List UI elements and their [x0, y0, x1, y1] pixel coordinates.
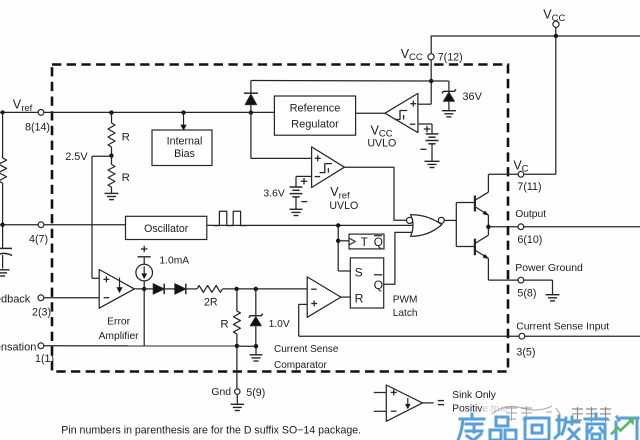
wire 2.5V to divider	[92, 155, 112, 157]
label Current Sense Input	[516, 322, 609, 359]
ground (1.0V zener)	[250, 355, 263, 361]
label S input	[355, 265, 363, 279]
transistor Q1 (upper NPN)	[475, 174, 489, 227]
clock waveform glyph	[214, 211, 247, 225]
watermark green arrow	[611, 421, 631, 435]
label Vref UVLO	[329, 185, 358, 212]
watermark char 6	[616, 417, 638, 440]
svg-text:R: R	[220, 318, 228, 330]
wire Vref UVLO minus input	[296, 176, 312, 187]
label R input	[355, 291, 364, 305]
wire UVLO plus input	[418, 103, 431, 105]
battery VCC UVLO threshold	[420, 126, 438, 150]
wire comp to zener ground	[237, 345, 256, 347]
pin Vref 8(14) label	[13, 98, 50, 134]
svg-text:Feedback: Feedback	[0, 293, 31, 305]
label 1.0mA	[159, 255, 189, 266]
ground (36V zener)	[442, 111, 456, 117]
pin Output 6(10)	[518, 224, 524, 230]
svg-text:Current Sense Input: Current Sense Input	[516, 322, 609, 333]
pin Power Ground 5(8)	[518, 277, 524, 283]
op-amp VCC UVLO	[385, 93, 418, 132]
wire latch output to gate	[384, 232, 412, 284]
wire comparator to R latch	[341, 296, 350, 298]
wire VCC internal rail	[251, 80, 431, 83]
op-amp Error Amplifier	[99, 270, 134, 309]
svg-text:3.6V: 3.6V	[263, 188, 284, 199]
wire to 36V zener	[431, 81, 449, 91]
label Internal Bias	[167, 136, 203, 160]
svg-text:4(7): 4(7)	[29, 234, 48, 246]
wire VCC top rail	[431, 36, 640, 57]
svg-text:Amplifier: Amplifier	[99, 331, 140, 342]
svg-text:5(8): 5(8)	[517, 288, 536, 300]
op-amp Current Sense Comparator	[307, 277, 341, 317]
wire oscillator output	[207, 224, 414, 226]
diode D2	[153, 284, 164, 295]
zener diode 36V	[442, 89, 456, 110]
label R lower	[122, 172, 130, 184]
wire comp node to Gnd pin	[236, 346, 238, 389]
node comp junction	[235, 344, 239, 348]
label VCC UVLO	[367, 123, 396, 149]
op-amp Vref UVLO	[312, 147, 345, 188]
wire diodes to 2R	[186, 288, 197, 290]
svg-text:6(10): 6(10)	[517, 234, 542, 246]
resistor R lower	[108, 156, 115, 193]
wire Current Sense Input	[299, 335, 640, 337]
wire diode to VCC rail	[250, 81, 252, 93]
node RT CT junction	[0, 223, 4, 227]
label 36V	[463, 91, 483, 103]
label 2R	[204, 296, 218, 308]
wire top VCC vertical	[555, 27, 557, 36]
transistor Q2 (lower NPN)	[475, 227, 489, 280]
svg-text:Error: Error	[107, 317, 130, 328]
watermark char 5	[585, 414, 607, 440]
svg-text:Q: Q	[374, 278, 383, 292]
label 1.0V	[269, 319, 290, 330]
label Current Sense Comparator	[274, 344, 339, 371]
wire VCC to VC drop	[555, 36, 557, 174]
bubble NOR output	[438, 217, 444, 223]
diode D1 (Vref-VCC)	[244, 93, 258, 112]
svg-text:2(3): 2(3)	[32, 307, 51, 319]
wire Vref rail	[0, 111, 274, 113]
ground (divider)	[105, 193, 119, 199]
node internal bias branch	[181, 110, 185, 114]
svg-text:7(11): 7(11)	[517, 181, 541, 193]
watermark char 4	[555, 416, 579, 440]
watermark char 2	[490, 417, 516, 440]
svg-text:Compensation: Compensation	[0, 341, 36, 353]
wire VC	[488, 173, 555, 175]
svg-text:R: R	[355, 291, 364, 305]
ground (VCC UVLO battery)	[425, 161, 440, 167]
svg-text:R: R	[122, 132, 130, 144]
node diode junction	[249, 110, 253, 114]
svg-text:Sink Only: Sink Only	[452, 390, 497, 401]
node Vref divider tap	[109, 110, 113, 114]
wire Gnd pin to ground	[236, 395, 238, 405]
wire CT branch	[2, 225, 4, 248]
node Vref left edge	[1, 110, 5, 114]
ground (CT)	[0, 270, 10, 276]
svg-text:Latch: Latch	[393, 308, 418, 319]
wire NOR output	[444, 219, 456, 221]
svg-text:Current Sense: Current Sense	[274, 344, 339, 355]
pin Gnd 5(9)	[235, 389, 240, 394]
capacitor CT (left edge)	[0, 248, 12, 268]
svg-text:7(12): 7(12)	[438, 51, 463, 63]
wire driver split	[455, 203, 457, 247]
svg-text:UVLO: UVLO	[367, 138, 396, 150]
gate NOR (output logic)	[411, 215, 442, 236]
label R upper	[122, 132, 130, 144]
zener diode 1.0V	[249, 289, 263, 346]
label Output	[515, 209, 546, 246]
resistor RT (left edge)	[0, 158, 7, 183]
pin Feedback 2(3) label	[0, 293, 51, 318]
resistor R (ramp divider)	[233, 289, 240, 346]
pin VCC top	[553, 21, 559, 27]
wire EA output to comp	[143, 289, 145, 346]
pin Compensation 1(1) label	[0, 341, 54, 365]
power VCC (top) label	[543, 8, 565, 24]
label R (ramp divider)	[220, 318, 228, 330]
svg-text:Output: Output	[515, 209, 546, 220]
wire RT branch	[2, 112, 4, 158]
svg-text:Oscillator: Oscillator	[144, 223, 189, 235]
node VCC rail junction	[554, 34, 558, 38]
wire upper base	[456, 202, 475, 204]
wire 2.5V to error amp	[92, 156, 99, 278]
pin Compensation 1(1)	[38, 343, 44, 349]
label Reference Regulator	[290, 103, 341, 131]
svg-text:2R: 2R	[204, 296, 218, 308]
pin VCC 7(12)	[428, 54, 434, 60]
svg-text:1(1): 1(1)	[35, 353, 54, 365]
block Internal Bias	[152, 130, 212, 166]
block Oscillator	[126, 216, 207, 239]
pin VC 7(11)	[518, 171, 524, 177]
svg-text:CC: CC	[409, 52, 423, 63]
svg-text:Reference: Reference	[290, 103, 341, 115]
wire Output	[488, 226, 640, 228]
watermark char 3	[525, 418, 549, 440]
pin RT/CT 4(7)	[38, 222, 44, 228]
resistor 2R	[197, 286, 223, 293]
pin Gnd 5(9) label	[211, 387, 265, 399]
block Reference Regulator	[274, 96, 355, 135]
legend text	[452, 390, 508, 414]
svg-text:S: S	[355, 265, 363, 279]
pin VCC 7(12) label	[401, 47, 463, 64]
svg-text:PWM: PWM	[393, 294, 418, 305]
current source 1.0mA	[136, 246, 153, 289]
node 2.5V tap	[109, 154, 113, 158]
wire internal bias arrow	[181, 112, 186, 130]
node error amp output	[142, 287, 146, 291]
svg-text:Bias: Bias	[174, 148, 195, 160]
ground (power ground)	[546, 295, 560, 301]
dashed IC boundary box	[52, 65, 508, 372]
label Oscillator	[144, 223, 189, 235]
node T input branch	[336, 239, 340, 243]
wire regulator to UVLO comparator	[356, 112, 385, 114]
wire Vref UVLO output	[344, 167, 406, 220]
wire VCC pin down	[430, 57, 432, 104]
wire Power Ground	[488, 280, 552, 295]
svg-text:ref: ref	[21, 103, 32, 114]
label Q-bar output	[374, 275, 383, 292]
node zener branch	[254, 287, 258, 291]
label T and clock chevron	[349, 235, 383, 249]
svg-text:1.0V: 1.0V	[269, 319, 290, 330]
label VC	[513, 158, 541, 193]
ground (Gnd pin)	[231, 404, 245, 410]
label 2.5V	[65, 151, 88, 163]
wire zener node down	[255, 346, 257, 355]
wire pin4 to oscillator	[0, 224, 126, 226]
wire RT to pin4	[2, 183, 4, 225]
node totem pole output	[486, 225, 490, 229]
svg-text:Gnd: Gnd	[211, 387, 231, 398]
wire battery to ground	[431, 144, 433, 161]
wire UVLO minus input	[418, 124, 432, 134]
svg-text:Power Ground: Power Ground	[515, 262, 583, 274]
svg-text:3(5): 3(5)	[516, 347, 535, 359]
pin 4(7) label	[29, 234, 48, 246]
svg-text:5(9): 5(9)	[246, 387, 265, 399]
block toggle flip-flop	[349, 234, 384, 249]
svg-text:T: T	[361, 235, 368, 249]
pin Current Sense 3(5)	[519, 333, 525, 339]
wire branch to T and S	[338, 225, 350, 271]
svg-text:8(14): 8(14)	[25, 122, 50, 134]
node zener ground junction	[254, 344, 258, 348]
label 3.6V	[263, 188, 284, 199]
wire CS to comparator plus	[299, 304, 308, 336]
battery 3.6V threshold	[290, 178, 308, 202]
svg-text:Comparator: Comparator	[274, 360, 327, 371]
wire feedback input	[44, 297, 99, 299]
wire lower base	[456, 246, 475, 248]
wire Vref to UVLO comparator	[251, 112, 312, 158]
wire T input	[338, 240, 349, 242]
diode D3	[175, 284, 186, 295]
svg-text:1.0mA: 1.0mA	[159, 255, 189, 266]
bubble NOR input	[407, 217, 413, 223]
wire 3.6V battery to ground	[295, 197, 297, 209]
pin Vref 8(14)	[38, 110, 44, 116]
svg-text:Pin numbers in parenthesis are: Pin numbers in parenthesis are for the D…	[61, 425, 361, 437]
node R branch	[234, 287, 238, 291]
svg-text:R: R	[122, 172, 130, 184]
ground (3.6V battery)	[290, 209, 303, 215]
watermark char 1	[458, 414, 484, 440]
svg-text:Q: Q	[374, 235, 383, 249]
wire EA apex to node	[134, 288, 153, 290]
node VCC internal junction	[429, 79, 433, 83]
node oscillator branch	[336, 223, 340, 227]
svg-text:UVLO: UVLO	[329, 200, 358, 212]
wire compensation	[44, 345, 237, 347]
label Error Amplifier	[99, 317, 140, 343]
svg-text:2.5V: 2.5V	[65, 151, 88, 163]
block PWM latch	[350, 258, 383, 308]
watermark (blue recycled-goods logo)	[458, 399, 638, 440]
label PWM Latch	[393, 294, 418, 319]
legend op-amp symbol	[374, 385, 434, 421]
svg-text:Internal: Internal	[167, 136, 203, 148]
legend equals sign	[438, 401, 444, 405]
pin Feedback 2(3)	[38, 295, 44, 301]
wire 2R to comparator	[223, 288, 308, 290]
label Power Ground	[515, 262, 583, 300]
wire between diodes	[165, 288, 175, 290]
resistor R upper	[108, 112, 115, 155]
svg-text:Regulator: Regulator	[291, 119, 339, 131]
svg-text:36V: 36V	[463, 91, 483, 103]
footnote text	[61, 425, 361, 437]
